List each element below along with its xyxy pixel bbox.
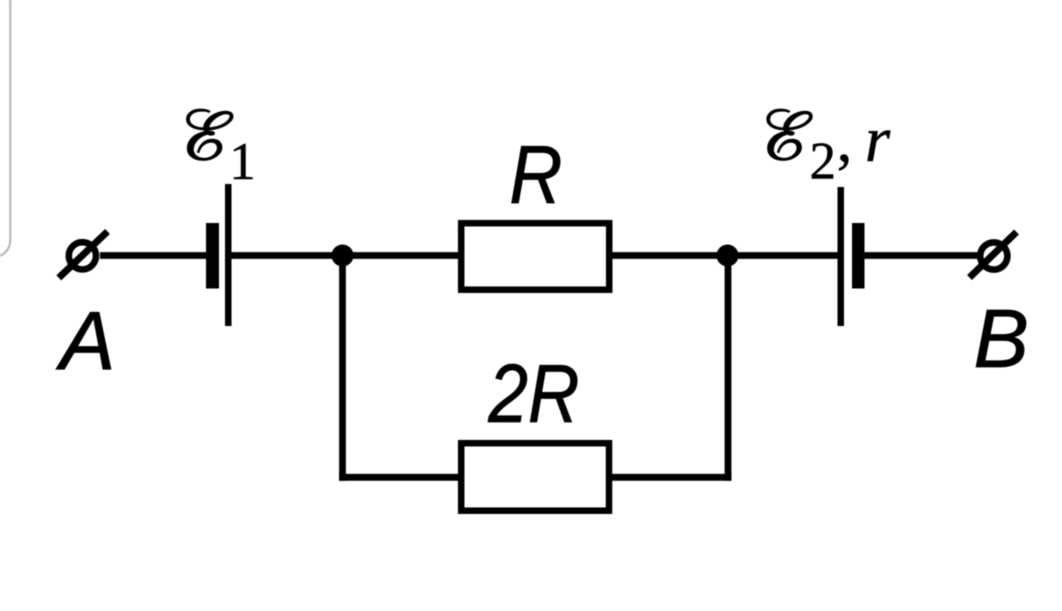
battery E2 positive plate (thin long): [838, 187, 845, 326]
svg-text:1: 1: [229, 133, 256, 191]
svg-text:r: r: [865, 104, 891, 176]
resistor 2R (box): [461, 443, 609, 511]
terminal B (slashed circle): [970, 232, 1017, 278]
battery E1 positive plate (thin long): [225, 184, 232, 326]
wire: battery E2 to B terminal: [864, 252, 979, 259]
label E2 (script E): [767, 109, 812, 160]
svg-text:2: 2: [810, 133, 837, 191]
svg-text:,: ,: [837, 107, 853, 175]
wire: resistor R to right node: [610, 252, 729, 259]
wire: left vertical branch: [339, 250, 346, 481]
wire: left node to resistor R: [343, 252, 463, 259]
terminal A (slashed circle): [59, 232, 108, 278]
battery E1 negative plate (thick short): [206, 223, 219, 289]
node: right junction dot: [717, 245, 739, 267]
wire: bottom rail of 2R branch: [339, 474, 731, 481]
wire: battery E1 to left node: [230, 252, 350, 259]
svg-text:A: A: [55, 294, 115, 387]
label E1 (script E): [187, 109, 234, 160]
svg-text:R: R: [509, 128, 562, 221]
wire: right node to battery E2: [728, 252, 841, 259]
wire: right vertical branch: [725, 250, 732, 481]
card border edge (decorative): [0, 0, 10, 256]
resistor R (box): [461, 223, 609, 290]
node: left junction dot: [332, 245, 354, 267]
wire: A terminal to battery E1: [100, 252, 208, 259]
svg-text:2R: 2R: [488, 347, 580, 440]
svg-text:B: B: [974, 292, 1029, 385]
battery E2 negative plate (thick short): [852, 223, 865, 289]
